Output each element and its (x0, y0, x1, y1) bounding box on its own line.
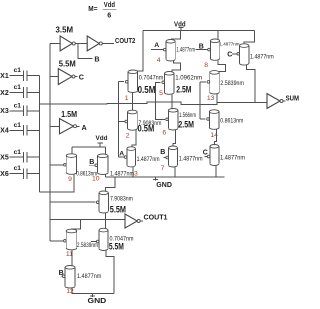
svg-text:1.4877nm: 1.4877nm (220, 155, 245, 162)
wire Vdd rail to transistor 4 drain (171, 30, 180, 39)
wire inverter U6 output to SUM (283, 100, 286, 102)
wire Vdd rail to transistor 8 drain (217, 30, 219, 39)
wire X4 to capacitor c1 (10, 129, 24, 131)
svg-text:Vdd: Vdd (96, 135, 108, 142)
wire capacitor c1 of X4 to bus (27, 129, 40, 131)
svg-text:1.4877nm: 1.4877nm (250, 54, 274, 61)
wire threshold node to transistor 6 gate (156, 102, 166, 119)
wire transistor 6 source to transistor 7 drain (173, 130, 175, 146)
wire input summing bus (bus1) (39, 76, 41, 192)
svg-text:1.0962nm: 1.0962nm (175, 74, 202, 81)
transistor 12 (60, 275, 65, 278)
transistor C1 (pull-up C) (232, 53, 240, 56)
wire capacitor c1 of X1 to bus (27, 75, 40, 77)
svg-text:X4: X4 (0, 128, 9, 135)
svg-text:2: 2 (126, 132, 130, 139)
svg-text:SUM: SUM (286, 94, 299, 103)
wire transistor 9 source to bus1 (40, 174, 75, 192)
transistor 4 (151, 48, 166, 51)
wire transistor 4 source to transistor 5 drain (172, 61, 181, 72)
wire X6 to capacitor c1 (10, 173, 24, 175)
transistor 9 (64, 164, 67, 167)
wire inverter U3 output to node C (75, 75, 78, 77)
wire X3 to capacitor c1 (10, 110, 24, 112)
capacitor c1 of X6 (23, 168, 27, 179)
svg-text:A: A (119, 151, 124, 158)
wire X1 to capacitor c1 (10, 75, 24, 77)
wire transistor Q79 drain up to GND rail (105, 177, 115, 191)
svg-text:1.4877nm: 1.4877nm (110, 172, 134, 178)
inverter U1 (3.5M) (60, 36, 75, 51)
wire transistor 7 source to GND rail (174, 167, 176, 177)
svg-text:A: A (154, 42, 159, 49)
svg-text:5.5M: 5.5M (59, 59, 76, 69)
inverter U3 (5.5M) (58, 69, 75, 85)
wire COUT1 node down to transistor 11 drain (71, 219, 81, 229)
svg-text:4: 4 (157, 57, 161, 64)
svg-text:13: 13 (207, 95, 215, 102)
svg-text:GND: GND (88, 296, 107, 304)
svg-text:X1: X1 (0, 73, 9, 80)
svg-text:9: 9 (68, 176, 72, 183)
wire bus2 to inverter U1 input (50, 42, 60, 44)
wire Vdd rail to transistor 1 drain (134, 30, 143, 71)
wire threshold node to transistors 13 and 14 gates (199, 82, 201, 119)
wire transistor 13 source to SUM node (216, 94, 218, 102)
wire capacitor c1 of X5 to bus (27, 156, 40, 158)
svg-text:1.4877nm: 1.4877nm (137, 156, 160, 163)
svg-text:5: 5 (159, 90, 163, 97)
wire inverter U4 output to node A (77, 125, 80, 127)
ground symbol GND (bottom) (88, 294, 107, 305)
wire threshold node bus (bus2) (49, 43, 51, 240)
wire inverter U5 output to COUT1 (140, 220, 143, 222)
wire GND rail (SUM network) (106, 176, 225, 178)
wire threshold node to transistor 5 gate (156, 82, 161, 102)
capacitor c1 of X4 (23, 125, 27, 136)
wire COUT1 node (bus2 to inverter U5) (50, 218, 125, 220)
svg-text:2.5M: 2.5M (178, 119, 194, 129)
capacitor c1 of X3 (23, 106, 27, 117)
svg-text:M=: M= (88, 4, 97, 13)
wire transistor 3 source to GND rail (132, 167, 134, 177)
wire inverter U2 output to COUT2 (102, 42, 114, 44)
svg-text:1.566nm: 1.566nm (179, 112, 196, 119)
transistor 14 (207, 118, 210, 121)
wire bus2 to transistor 11 gate (50, 240, 64, 242)
wire Vdd rail (top) (143, 29, 255, 31)
svg-text:2.5839nm: 2.5839nm (220, 80, 244, 87)
wire bus2 to transistor 9 gate (50, 164, 64, 166)
wire transistor 5 source to transistor 6 drain (171, 94, 173, 108)
wire transistor Q79 source to COUT1 node (104, 213, 106, 219)
svg-text:B: B (94, 54, 99, 63)
wire X2 to capacitor c1 (10, 92, 24, 94)
svg-text:c1: c1 (14, 67, 22, 74)
wire transistor 12 source to GND (72, 288, 114, 294)
svg-text:X2: X2 (0, 90, 9, 97)
wire transistor C2b source down to GND wire (106, 251, 114, 294)
svg-text:6: 6 (162, 129, 166, 136)
wire capacitor c1 of X2 to bus (27, 92, 40, 94)
svg-text:X3: X3 (0, 108, 9, 115)
formula M = Vdd/6 (88, 0, 116, 19)
transistor 8 (196, 48, 211, 51)
svg-text:c1: c1 (14, 165, 22, 172)
svg-text:c1: c1 (14, 84, 22, 91)
wire threshold node to SUM inverter (node SUM-in) (40, 102, 268, 104)
svg-text:C: C (203, 149, 208, 156)
wire transistor 1 source to transistor 2 drain (threshold node) (132, 93, 134, 111)
svg-text:1.4877nm: 1.4877nm (220, 42, 241, 47)
svg-text:2.5M: 2.5M (176, 85, 191, 95)
svg-text:1.4877nm: 1.4877nm (176, 47, 195, 54)
wire node A to transistor 1 gate (119, 81, 124, 83)
wire transistor C1 source down to SUM node (246, 65, 255, 102)
power symbol Vdd (middle) (96, 135, 108, 147)
svg-text:c1: c1 (14, 149, 22, 156)
wire Vdd rail (middle) (72, 146, 106, 148)
wire node A to transistor 3 gate (119, 156, 124, 158)
ground symbol GND (SUM network) (153, 177, 172, 189)
wire Vdd rail to transistor C1 drain (244, 30, 254, 44)
svg-text:0.8613nm: 0.8613nm (220, 118, 243, 125)
svg-text:B: B (160, 149, 165, 156)
wire transistor 2 source to transistor 3 drain (132, 130, 136, 147)
inverter U4 (1.5M) (60, 119, 77, 134)
capacitor c1 of X1 (23, 70, 27, 81)
inverter U2 (COUT2 driver) (87, 36, 102, 51)
svg-text:A: A (82, 123, 87, 132)
wire SUM node to inverter U6 input (255, 101, 267, 103)
svg-text:c1: c1 (14, 102, 22, 109)
svg-text:7: 7 (161, 165, 165, 172)
svg-text:1.4877nm: 1.4877nm (77, 273, 101, 280)
svg-text:X6: X6 (0, 171, 9, 178)
transistor 13 (207, 81, 210, 84)
transistor C2b (0.7047nm) (91, 240, 99, 243)
svg-text:1: 1 (125, 95, 129, 102)
transistor 6 (166, 118, 169, 121)
svg-text:7.9083nm: 7.9083nm (110, 195, 133, 202)
wire bus2 to transistor Q79 gate (50, 201, 96, 203)
wire tap to node B (78, 43, 93, 58)
wire transistor 10 source to GND rail (105, 175, 107, 178)
inverter U6 (SUM driver) (267, 94, 283, 109)
transistor 3 (124, 156, 127, 159)
transistor C2 (pull-down C) (205, 155, 210, 158)
svg-text:GND: GND (156, 180, 172, 189)
wire COUT1 node to transistor C2b drain (105, 219, 107, 228)
wire transistor 11 source to transistor 12 drain (71, 250, 73, 266)
inverter U5 (COUT1 driver) (125, 214, 140, 228)
wire node A to transistor 2 gate (119, 121, 125, 123)
svg-text:COUT1: COUT1 (144, 213, 168, 222)
svg-text:5.5M: 5.5M (110, 204, 126, 214)
svg-text:c1: c1 (14, 122, 22, 129)
svg-text:1.5M: 1.5M (61, 109, 77, 119)
wire transistor 14 source to transistor C2 drain (214, 129, 216, 144)
wire gate stub of transistor 14 (200, 118, 206, 120)
wire node A vertical to gates of transistors 1, 2 and 3 (118, 82, 120, 157)
capacitor c1 of X2 (23, 87, 27, 98)
svg-text:0.7047nm: 0.7047nm (139, 75, 164, 82)
power symbol Vdd (top) (174, 19, 186, 30)
transistor 7 (164, 156, 169, 159)
svg-text:8: 8 (204, 62, 208, 69)
capacitor c1 of X5 (23, 152, 27, 163)
wire inverter U1 output to inverter U2 input (75, 42, 87, 44)
svg-text:5.5M: 5.5M (109, 242, 124, 252)
transistor 2 (125, 120, 128, 123)
transistor 5 (162, 81, 165, 84)
svg-text:C: C (227, 51, 232, 58)
svg-text:6: 6 (107, 10, 111, 19)
transistor Q79 (7.9083nm) (96, 201, 99, 204)
wire gate stub of transistor 13 (200, 81, 206, 83)
svg-text:2.5839nm: 2.5839nm (77, 242, 98, 249)
svg-text:C: C (79, 73, 84, 82)
svg-text:10: 10 (92, 176, 100, 183)
svg-text:3.5M: 3.5M (56, 24, 74, 34)
wire bus2 to inverter U4 input (50, 125, 60, 127)
svg-text:COUT2: COUT2 (115, 36, 135, 45)
wire X5 to capacitor c1 (10, 156, 24, 158)
svg-text:0.5M: 0.5M (138, 85, 156, 96)
wire capacitor c1 of X6 to bus (27, 173, 40, 175)
svg-text:1.4877nm: 1.4877nm (179, 155, 203, 162)
transistor 1 (125, 80, 128, 83)
transistor 11 (64, 240, 67, 243)
svg-text:0.5M: 0.5M (138, 123, 155, 133)
wire transistor C2 source to GND rail (215, 166, 217, 178)
wire transistor 8 source to transistor 13 drain (217, 60, 226, 71)
wire bus2 to inverter U3 input (50, 75, 58, 77)
transistor 10 (89, 164, 98, 167)
svg-text:Vdd: Vdd (104, 0, 115, 9)
wire capacitor c1 of X3 to bus (27, 110, 40, 112)
wire Vdd rail to transistor 10 drain (105, 147, 107, 154)
wire Vdd rail to transistor 9 drain (71, 147, 73, 154)
svg-text:X5: X5 (0, 155, 9, 162)
